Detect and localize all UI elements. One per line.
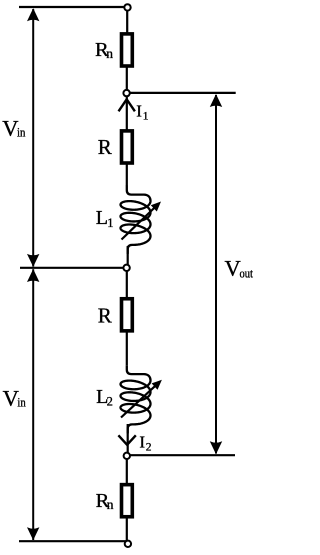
svg-text:R: R	[98, 135, 112, 159]
svg-text:I: I	[136, 101, 142, 120]
svg-text:R: R	[98, 304, 112, 328]
svg-text:out: out	[240, 266, 254, 281]
svg-text:1: 1	[107, 216, 113, 230]
svg-text:in: in	[17, 125, 26, 140]
svg-text:V: V	[225, 255, 241, 280]
svg-text:I: I	[139, 433, 145, 452]
svg-text:in: in	[17, 395, 26, 410]
svg-text:n: n	[107, 497, 114, 512]
svg-text:1: 1	[143, 110, 149, 122]
svg-text:2: 2	[146, 442, 152, 454]
svg-text:2: 2	[107, 395, 113, 409]
svg-text:L: L	[96, 207, 108, 229]
svg-text:V: V	[2, 116, 18, 141]
svg-text:n: n	[106, 46, 113, 61]
